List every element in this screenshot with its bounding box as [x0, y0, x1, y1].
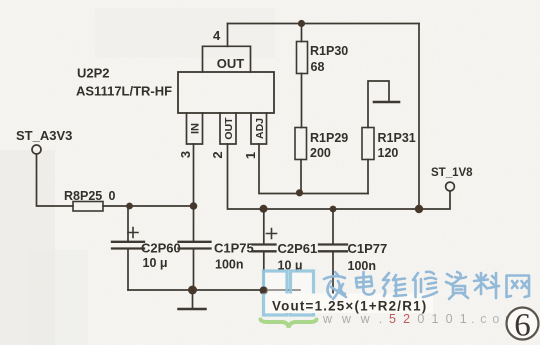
- wire top rail: [228, 23, 420, 25]
- svg-text:2: 2: [210, 151, 225, 158]
- capacitor C1P77 value 100n: [319, 209, 387, 294]
- svg-text:1: 1: [243, 152, 258, 159]
- page number badge 6: [507, 308, 539, 344]
- capacitor C1P75 value 100n: [179, 206, 254, 290]
- watermark book logo: [264, 271, 314, 315]
- wire ground rail: [128, 289, 300, 291]
- svg-text:OUT: OUT: [217, 56, 245, 71]
- svg-text:R1P29: R1P29: [310, 131, 348, 145]
- svg-text:68: 68: [311, 60, 325, 74]
- svg-text:520101: 520101: [389, 312, 474, 326]
- svg-text:R1P30: R1P30: [310, 44, 348, 58]
- capacitor C2P60 value 10u: [112, 206, 181, 290]
- resistor R8P25 value 0: [64, 189, 116, 211]
- svg-text:4: 4: [213, 28, 221, 43]
- node junction ground rail / C2P61 (over watermark): [260, 287, 267, 294]
- wire ST_A3V3 to R8P25: [37, 154, 74, 206]
- node junction top rail / R1P30: [298, 20, 305, 27]
- ground: [179, 290, 206, 309]
- svg-text:IN: IN: [190, 123, 202, 134]
- watermark url: [322, 312, 521, 326]
- node junction input/C2P60: [126, 203, 133, 210]
- svg-text:6: 6: [514, 308, 531, 344]
- svg-text:100n: 100n: [348, 259, 377, 273]
- resistor R1P29 value 200: [295, 128, 348, 161]
- svg-text:100n: 100n: [215, 258, 244, 272]
- node junction output rail / C2P61: [260, 205, 268, 213]
- svg-text:www.: www.: [322, 312, 392, 326]
- svg-text:200: 200: [310, 146, 331, 160]
- wire top rail to R1P30: [301, 24, 303, 42]
- regulator U2P2 AS1117L/TR-HF: [76, 46, 274, 144]
- watermark green brace: [261, 320, 317, 328]
- svg-text:OUT: OUT: [223, 117, 235, 140]
- wire OUT pin and output rail: [228, 144, 451, 209]
- wire pin4 to top rail: [227, 24, 229, 47]
- node ST_1V8: [431, 167, 473, 191]
- watermark chinese characters: [324, 272, 529, 299]
- node junction input/IN pin/C1P75: [190, 202, 198, 210]
- svg-text:AS1117L/TR-HF: AS1117L/TR-HF: [76, 84, 172, 99]
- wire IN pin down: [193, 144, 195, 206]
- resistor R1P30 value 68: [297, 42, 349, 75]
- formula label box: [268, 294, 433, 314]
- node junction output rail / right vertical: [415, 205, 423, 213]
- svg-text:C1P75: C1P75: [214, 241, 254, 256]
- wire R1P30 to R1P29: [301, 74, 303, 128]
- svg-text:ADJ: ADJ: [254, 118, 266, 139]
- jumper pad above R1P31: [368, 81, 399, 128]
- svg-text:U2P2: U2P2: [77, 66, 110, 81]
- wire right vertical (top rail to output rail): [418, 24, 420, 210]
- wire R1P31 to ADJ line: [367, 160, 369, 194]
- wire R1P29 to ADJ line: [300, 160, 302, 194]
- svg-text:C2P61: C2P61: [278, 241, 318, 256]
- resistor R1P31 value 120: [362, 128, 416, 161]
- wire input rail: [103, 205, 194, 207]
- node junction ground rail / C1P75 / ground: [188, 286, 197, 295]
- svg-text:0: 0: [109, 189, 116, 203]
- svg-text:120: 120: [378, 146, 399, 160]
- node junction ground rail / C2P61: [260, 286, 268, 294]
- node junction output rail / C1P77: [330, 206, 337, 213]
- svg-text:C1P77: C1P77: [348, 241, 388, 256]
- wire ADJ pin to divider line: [259, 144, 368, 194]
- svg-text:C2P60: C2P60: [141, 241, 181, 256]
- node ST_A3V3: [16, 128, 72, 154]
- svg-text:R1P31: R1P31: [378, 131, 416, 145]
- svg-text:10 μ: 10 μ: [143, 256, 168, 270]
- node junction ADJ line / R1P29: [296, 189, 303, 196]
- svg-text:ST_A3V3: ST_A3V3: [16, 128, 72, 143]
- capacitor C2P61 value 10u: [253, 209, 318, 290]
- svg-text:ST_1V8: ST_1V8: [431, 167, 473, 179]
- svg-text:3: 3: [178, 151, 193, 158]
